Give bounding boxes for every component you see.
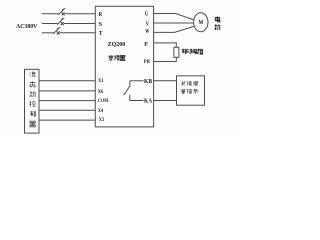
wire U to motor — [154, 14, 194, 20]
wire KB to alarm box — [154, 80, 177, 82]
label 制动电阻 glyph 电 — [193, 49, 197, 54]
breaker QF pole S blade — [57, 18, 64, 25]
wire controller X4 — [39, 109, 95, 111]
label 外接报 glyph 外 — [181, 81, 185, 85]
svg-text:KA: KA — [144, 99, 153, 105]
label 洗衣机控制器 glyph 洗 — [30, 71, 36, 77]
label 变频器 glyph 频 — [114, 55, 119, 60]
wire controller X1 — [39, 80, 95, 82]
svg-text:W: W — [145, 29, 149, 35]
inverter U1 ZQ200 box — [95, 6, 153, 127]
label 电机 glyph 机 — [215, 24, 220, 30]
svg-text:X3: X3 — [99, 117, 105, 123]
svg-text:PR: PR — [144, 59, 151, 65]
breaker QF pole R x-contact — [62, 12, 65, 15]
svg-text:KB: KB — [144, 79, 152, 85]
svg-text:R: R — [99, 12, 103, 18]
alarm indicator box — [177, 76, 205, 105]
wire P to braking resistor — [154, 43, 177, 47]
wire T to box — [60, 32, 95, 34]
wire KB inside — [130, 80, 144, 82]
label 洗衣机控制器 glyph 机 — [30, 91, 35, 97]
svg-text:X1: X1 — [98, 78, 104, 84]
svg-text:P: P — [144, 42, 148, 48]
label 警指示 glyph 示 — [193, 89, 197, 93]
resistor R braking — [174, 47, 179, 57]
wire KA to alarm box — [154, 100, 177, 102]
wire resistor to PR — [154, 57, 177, 61]
label 洗衣机控制器 glyph 器 — [30, 121, 36, 127]
washer controller box — [25, 69, 40, 133]
svg-text:X4: X4 — [98, 108, 104, 114]
svg-text:U: U — [145, 12, 149, 18]
wire controller X6 — [39, 90, 95, 92]
wire S supply — [42, 23, 58, 25]
wire V to motor — [154, 22, 194, 24]
breaker QF pole R blade — [58, 8, 65, 15]
label 警指示 glyph 警 — [181, 89, 185, 93]
label 电机 glyph 电 — [215, 16, 220, 21]
wire W to motor — [154, 26, 194, 32]
label 洗衣机控制器 glyph 衣 — [30, 81, 36, 87]
label 制动电阻 glyph 制 — [182, 49, 187, 54]
wire T supply — [42, 32, 54, 34]
wire R supply — [42, 13, 59, 15]
label 洗衣机控制器 glyph 控 — [30, 101, 36, 107]
svg-text:AC380V: AC380V — [16, 23, 38, 30]
breaker QF pole T x-contact — [57, 31, 60, 34]
label 制动电阻 glyph 阻 — [198, 49, 203, 54]
label 警指示 glyph 指 — [187, 89, 191, 93]
svg-text:X6: X6 — [98, 89, 104, 95]
label 外接报 glyph 接 — [187, 81, 191, 85]
svg-text:ZQ200: ZQ200 — [108, 42, 126, 48]
wire controller COM — [39, 100, 95, 102]
svg-text:T: T — [99, 31, 103, 37]
svg-text:M: M — [199, 19, 204, 26]
motor M circle — [194, 13, 208, 32]
contact K blade — [124, 86, 130, 95]
breaker QF pole S x-contact — [61, 22, 64, 25]
label 变频器 glyph 变 — [108, 55, 113, 60]
label 外接报 glyph 报 — [193, 81, 197, 85]
label 变频器 glyph 器 — [120, 55, 125, 60]
wire KA inside — [130, 100, 144, 102]
label 制动电阻 glyph 动 — [187, 49, 192, 54]
wire R to box — [65, 13, 95, 15]
label 洗衣机控制器 glyph 制 — [30, 111, 35, 117]
breaker QF pole T blade — [53, 27, 60, 34]
svg-text:COM: COM — [98, 99, 109, 104]
svg-text:V: V — [146, 21, 150, 27]
contact K relay vertical top — [129, 81, 131, 87]
wire controller X5 — [39, 119, 95, 121]
wire S to box — [64, 23, 95, 25]
contact K vertical bottom — [129, 95, 131, 101]
